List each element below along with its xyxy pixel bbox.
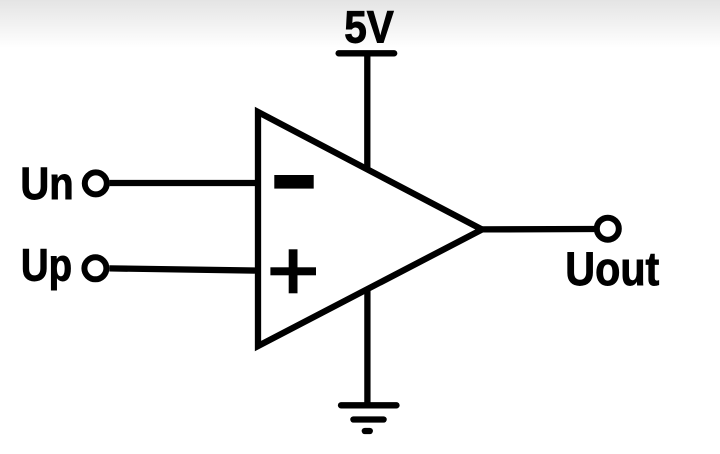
node Un label	[20, 159, 73, 210]
svg-text:Un: Un	[20, 159, 73, 210]
op-amp inverting input symbol (minus)	[274, 175, 313, 189]
svg-text:Up: Up	[21, 240, 72, 291]
wire: Up terminal to non-inverting input	[109, 268, 259, 270]
svg-text:5V: 5V	[344, 3, 394, 54]
op-amp U1 triangle	[258, 112, 482, 346]
wire: V+ supply to op-amp top	[364, 53, 370, 175]
power supply rail bar	[339, 50, 395, 56]
terminal Un	[85, 172, 107, 194]
svg-text:Uout: Uout	[565, 243, 659, 295]
wire: op-amp bottom to ground	[364, 285, 370, 405]
power supply 5V label	[344, 3, 394, 54]
ground symbol	[341, 405, 397, 431]
wire: op-amp output to Uout terminal	[478, 226, 595, 233]
wire: Un terminal to inverting input	[110, 180, 259, 186]
node Up label	[21, 240, 72, 291]
node Uout label	[565, 243, 659, 295]
terminal Uout	[597, 218, 619, 240]
op-amp non-inverting input symbol (plus)	[270, 249, 316, 293]
terminal Up	[84, 257, 106, 279]
